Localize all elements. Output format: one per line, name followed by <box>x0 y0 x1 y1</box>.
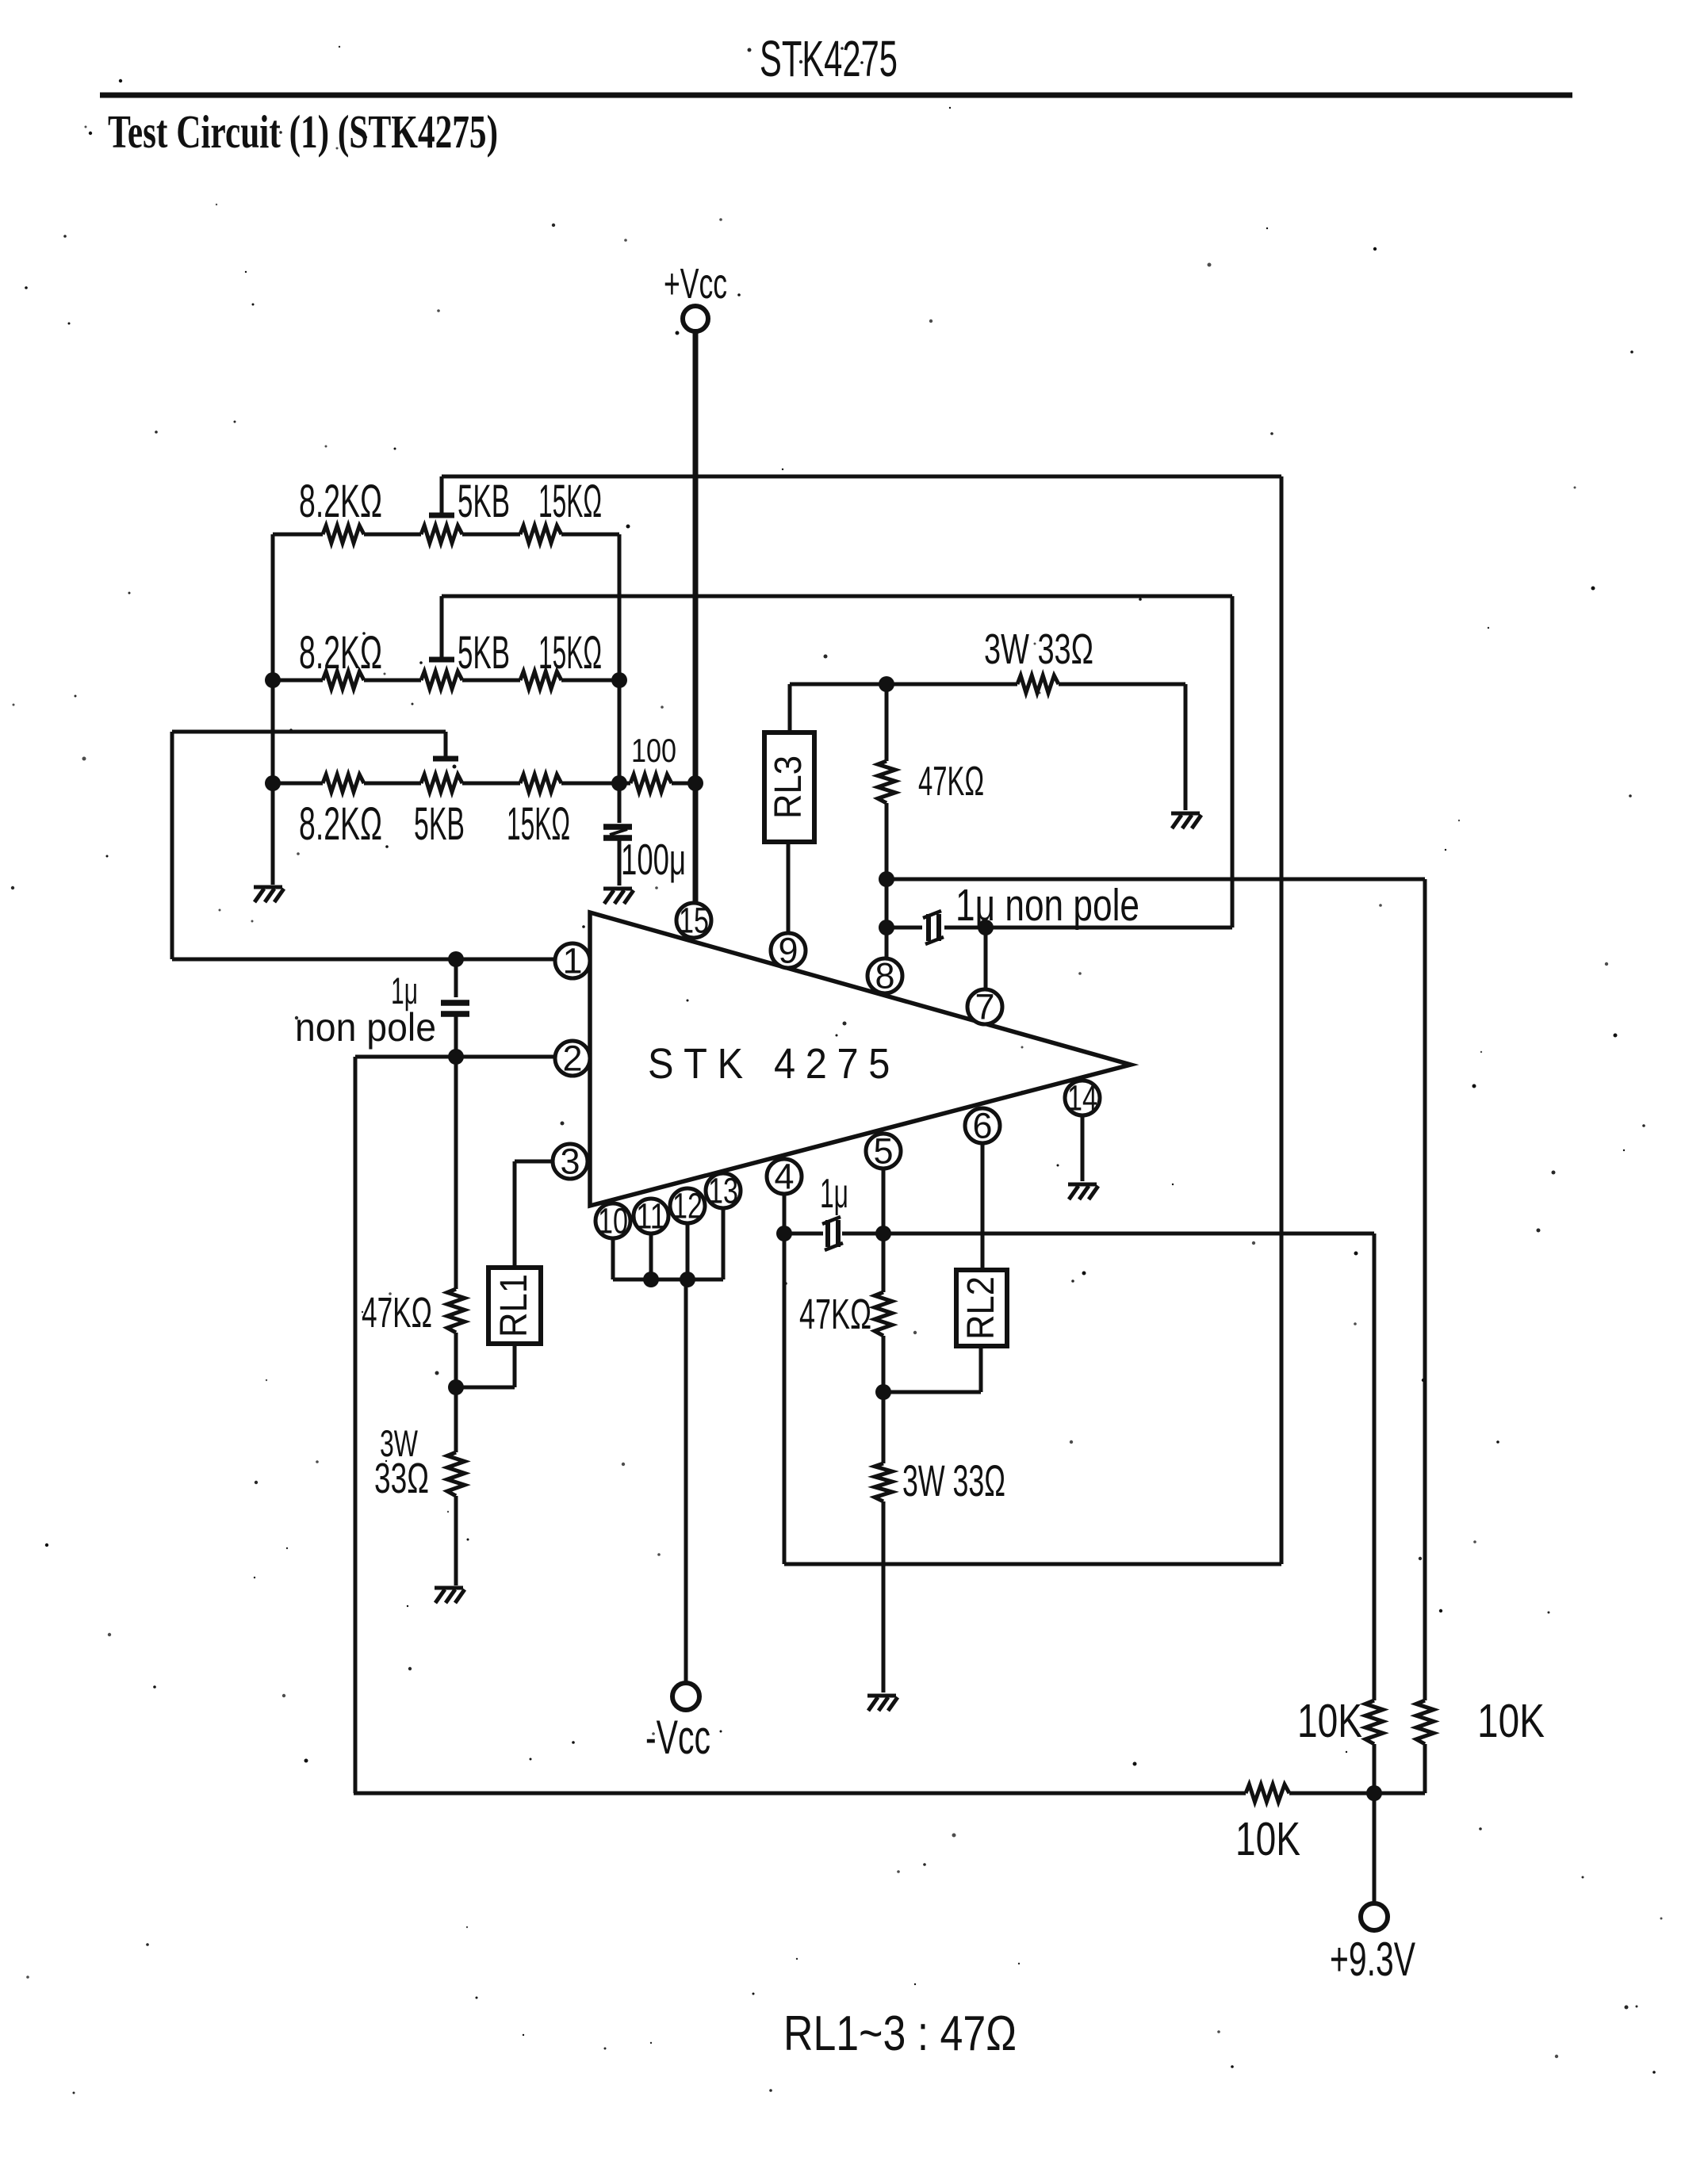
svg-text:RL1: RL1 <box>493 1274 535 1337</box>
svg-text:1μ: 1μ <box>820 1171 848 1217</box>
svg-text:Test Circuit (1) (STK4275): Test Circuit (1) (STK4275) <box>108 105 498 158</box>
svg-text:3W 33Ω: 3W 33Ω <box>984 625 1093 673</box>
svg-text:8.2KΩ: 8.2KΩ <box>299 627 382 679</box>
svg-text:2: 2 <box>562 1038 582 1079</box>
svg-text:14: 14 <box>1067 1078 1097 1119</box>
svg-text:100μ: 100μ <box>621 835 686 884</box>
svg-text:10K: 10K <box>1297 1695 1362 1747</box>
svg-text:-Vcc: -Vcc <box>645 1711 710 1764</box>
svg-text:33Ω: 33Ω <box>374 1455 429 1502</box>
svg-text:8: 8 <box>875 956 894 996</box>
svg-text:12: 12 <box>672 1186 703 1226</box>
svg-text:+Vcc: +Vcc <box>664 260 727 308</box>
svg-text:10: 10 <box>598 1201 628 1241</box>
svg-text:5: 5 <box>873 1131 893 1172</box>
svg-text:6: 6 <box>972 1106 992 1146</box>
svg-text:RL1~3 : 47Ω: RL1~3 : 47Ω <box>783 2006 1017 2061</box>
svg-text:7: 7 <box>975 987 994 1027</box>
svg-text:8.2KΩ: 8.2KΩ <box>299 476 382 527</box>
svg-text:11: 11 <box>636 1196 666 1237</box>
svg-text:5KB: 5KB <box>414 798 465 850</box>
svg-text:4: 4 <box>774 1157 794 1197</box>
svg-text:15KΩ: 15KΩ <box>538 627 602 679</box>
svg-text:3W 33Ω: 3W 33Ω <box>902 1455 1005 1505</box>
svg-text:3: 3 <box>560 1142 580 1182</box>
svg-text:15: 15 <box>679 901 709 941</box>
svg-text:5KB: 5KB <box>458 627 510 679</box>
svg-text:1: 1 <box>562 941 582 981</box>
svg-text:RL3: RL3 <box>768 755 810 819</box>
svg-text:47KΩ: 47KΩ <box>918 759 984 805</box>
svg-text:9: 9 <box>778 931 798 971</box>
svg-text:15KΩ: 15KΩ <box>507 798 570 850</box>
svg-text:15KΩ: 15KΩ <box>538 476 602 527</box>
svg-text:100: 100 <box>631 732 676 769</box>
svg-text:47KΩ: 47KΩ <box>362 1289 432 1337</box>
svg-text:non pole: non pole <box>295 1005 436 1050</box>
svg-text:5KB: 5KB <box>458 476 510 527</box>
svg-text:8.2KΩ: 8.2KΩ <box>299 798 382 850</box>
svg-text:10K: 10K <box>1477 1695 1545 1747</box>
svg-text:47KΩ: 47KΩ <box>799 1291 871 1338</box>
svg-text:13: 13 <box>708 1171 738 1211</box>
svg-text:STK4275: STK4275 <box>760 30 898 87</box>
svg-text:RL2: RL2 <box>960 1276 1002 1340</box>
svg-text:STK 4275: STK 4275 <box>648 1040 900 1088</box>
svg-text:+9.3V: +9.3V <box>1330 1933 1415 1986</box>
svg-text:10K: 10K <box>1235 1813 1300 1865</box>
